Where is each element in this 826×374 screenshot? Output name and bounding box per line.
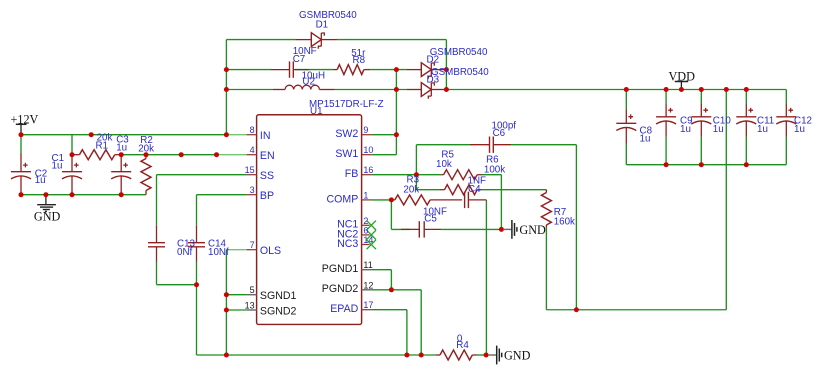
svg-text:SGND1: SGND1 [260,290,297,302]
wire C9 top leg [665,90,667,104]
wire C1 riser [71,135,73,155]
diode D3 symbol [421,83,434,99]
capacitor C1 1u [62,155,82,195]
pin 15 stub [247,174,257,176]
wire SW1 [372,154,397,156]
ground symbol GND left [37,195,56,212]
capacitor C5 10NF [401,221,441,237]
svg-text:4: 4 [250,145,255,155]
svg-text:IN: IN [260,130,271,142]
capacitor C8 1u [616,110,636,143]
svg-text:U1: U1 [310,106,323,117]
svg-text:1u: 1u [680,124,691,135]
wire FB riser [415,145,417,190]
pin 2 NC stub [362,224,370,226]
capacitor C7 10NF [271,61,309,77]
node rail EPAD junction [404,353,409,358]
pin 5 stub [247,294,257,296]
svg-text:160k: 160k [554,216,575,227]
wire PGND2 [372,289,422,291]
svg-text:D1: D1 [316,19,329,30]
wire C13 vertical upper [156,175,158,226]
wire R5 GND vertical [500,175,502,230]
power VDD symbol [675,82,689,90]
wire feedback bottom line [546,309,726,311]
diode D2 GSMBR0540 [407,69,421,71]
node C13/C14 junction [194,282,199,287]
wire C7 to R8 [295,69,333,71]
pin 1 stub [362,199,372,201]
capacitor C4 1NF [465,192,487,208]
wire R7 lower vertical [545,227,547,310]
svg-text:D3: D3 [427,75,440,86]
svg-text:1u: 1u [116,143,127,154]
wire lower left GND rail [21,194,146,196]
resistor R1 20k [72,150,121,160]
svg-text:1: 1 [363,190,368,200]
wire SW2 [372,134,397,136]
node IN rail junction [89,132,94,137]
wire C14 vertical lower [196,262,198,356]
node bank C10 junction [699,162,704,167]
svg-text:14: 14 [363,235,373,245]
wire C7 line left [226,69,271,71]
wire SW vertical [395,70,397,155]
wire BP line [197,194,247,196]
svg-text:100k: 100k [484,164,505,175]
pin 10 stub [362,154,372,156]
capacitor C12 1u [776,104,796,137]
no-connect X pin 6 [367,230,376,239]
node EN junction [179,152,184,157]
wire C6 drop vertical [575,145,577,310]
node VDD tap junction [724,87,729,92]
svg-text:16: 16 [363,165,373,175]
svg-text:R8: R8 [353,55,366,66]
wire C9 bottom leg [665,137,667,165]
wire C11 top leg [745,90,747,104]
wire D1 drop [445,40,447,90]
svg-text:R4: R4 [456,340,469,351]
node IN rail left vertical junction [224,132,229,137]
svg-text:11: 11 [363,260,372,270]
wire COMP drop [390,200,392,230]
svg-text:10k: 10k [436,159,452,170]
resistor R6 100k [440,185,482,195]
svg-text:COMP: COMP [327,193,359,205]
wire D1 line left [226,39,296,41]
resistor R2 20k [141,155,151,195]
pin 8 stub [247,134,257,136]
svg-text:1u: 1u [713,124,724,135]
node rail SGND junction [224,353,229,358]
wire D1 line right [337,39,446,41]
svg-text:GND: GND [504,349,531,363]
wire SGND vertical [225,250,227,355]
wire C14 vertical upper [196,195,198,226]
svg-text:15: 15 [245,165,255,175]
wire SGND2 [226,309,246,311]
svg-text:1u: 1u [757,124,768,135]
wire C11 bottom leg [745,137,747,165]
node EN/C1 junction [70,152,75,157]
svg-text:13: 13 [245,301,255,311]
resistor R7 160k [541,190,551,227]
diode D1 symbol [311,33,324,49]
wire R4 to GND [477,354,487,356]
node bank C9 junction [664,162,669,167]
svg-text:GND: GND [519,223,546,237]
pin 3 stub [247,194,257,196]
svg-text:D2: D2 [427,55,440,66]
wire C12 bottom leg [785,137,787,165]
svg-text:1u: 1u [794,124,805,135]
svg-text:BP: BP [260,190,274,202]
svg-text:C7: C7 [293,54,306,65]
wire C6 line left [416,144,470,146]
pin 4 stub [247,154,257,156]
pin 6 NC stub [362,234,370,236]
pin 9 stub [362,134,372,136]
no-connect X pin 2 [367,221,376,230]
node rail PGND2 junction [419,353,424,358]
wire C13 C14 link [157,284,197,286]
svg-text:2: 2 [363,216,368,226]
node rail GND junction [484,353,489,358]
wire cap bank bottom rail [626,164,786,166]
wire EN pin pale segment [217,154,247,156]
svg-text:OLS: OLS [260,245,281,257]
svg-text:PGND2: PGND2 [322,283,359,295]
wire FB line [372,174,442,176]
svg-text:9: 9 [363,125,368,135]
wire R6 line right [482,189,547,191]
capacitor C6 100pf [470,137,511,153]
node GND rail GND junction [43,192,48,197]
wire output VDD rail [446,89,786,91]
pin 17 stub [362,309,372,311]
wire OLS pale segment [226,249,246,251]
node bank C11 junction [744,162,749,167]
svg-text:GSMBR0540: GSMBR0540 [431,67,489,78]
wire PGND2 drop [420,290,422,355]
wire U2 line left [226,89,273,91]
node D3 out junction [444,87,449,92]
pin 7 stub [247,249,257,251]
wire R6 line left [416,189,440,191]
wire SS line [157,174,247,176]
node +12V junction [19,132,24,137]
node PGND junction [389,287,394,292]
wire PGND1 [372,269,392,271]
wire U2 to D3 [335,89,407,91]
node GND mid junction [499,227,504,232]
wire EPAD [372,309,407,311]
svg-text:FB: FB [345,168,359,180]
node feedback junction [574,307,579,312]
svg-text:NC3: NC3 [337,238,358,250]
node EN/R2 junction [144,152,149,157]
node SGND1 junction [224,292,229,297]
svg-text:C4: C4 [468,184,481,195]
node D2 out junction [444,67,449,72]
wire C8 bottom leg [625,143,627,165]
wire +12V rail to IN pin [21,134,226,136]
pin 13 stub [247,309,257,311]
svg-text:EN: EN [260,150,275,162]
svg-text:3: 3 [250,185,255,195]
node FB junction [414,172,419,177]
node SGND2 junction [224,308,229,313]
svg-text:6: 6 [363,225,368,235]
svg-text:PGND1: PGND1 [322,263,359,275]
svg-text:17: 17 [363,300,373,310]
wire EPAD drop [406,310,408,355]
wire C6 line right [511,144,576,146]
capacitor C10 1u [691,104,711,137]
svg-text:8: 8 [250,125,255,135]
node VDD C8 junction [624,87,629,92]
wire SGND1 [226,294,246,296]
wire C10 top leg [700,90,702,104]
wire PGND1 drop [390,270,392,290]
diode D1 GSMBR0540 [296,39,311,41]
svg-text:SW2: SW2 [335,128,358,140]
svg-text:20k: 20k [403,185,419,196]
wire left vertical [225,40,227,135]
capacitor C2 1u [11,153,31,195]
wire C5 line right [441,228,501,230]
node VDD sym junction [679,87,684,92]
wire R5 to GND vertical [482,174,502,176]
svg-text:20k: 20k [138,143,154,154]
no-connect X pin 14 [367,240,376,249]
svg-text:R1: R1 [96,140,109,151]
capacitor C3 1u [111,155,131,195]
pin 12 stub [362,289,372,291]
svg-text:+12V: +12V [11,113,39,127]
svg-text:SW1: SW1 [335,148,358,160]
svg-text:0Nf: 0Nf [177,247,193,258]
node U2 line junction [224,87,229,92]
wire bottom GND rail [197,354,437,356]
node VDD C11 junction [744,87,749,92]
pin 16 stub [362,174,372,176]
node GND rail C1 junction [70,192,75,197]
wire EN line [121,154,216,156]
node SW/D3 junction [394,87,399,92]
svg-text:7: 7 [250,240,255,250]
resistor R5 10k [441,170,481,180]
capacitor C13 0Nf [148,226,165,262]
node COMP junction [389,197,394,202]
resistor R4 0 [436,350,477,360]
wire R8 to D2 [370,69,407,71]
resistor R3 20k [391,195,462,205]
svg-text:C6: C6 [493,128,506,139]
ground symbol GND bottom [489,346,502,365]
wire C5 line left [391,228,410,230]
node EN/C3 junction [119,152,124,157]
ground symbol GND middle [504,220,517,239]
svg-text:GND: GND [34,210,61,224]
wire C10 bottom leg [700,137,702,165]
wire C12 top leg [785,90,787,104]
node C7 line junction [224,67,229,72]
svg-text:SS: SS [260,170,274,182]
svg-text:10Nf: 10Nf [208,247,229,258]
svg-text:EPAD: EPAD [330,303,358,315]
svg-text:C5: C5 [424,213,437,224]
svg-text:5: 5 [250,285,255,295]
pin 14 NC stub [362,244,370,246]
capacitor C9 1u [656,104,676,137]
capacitor C11 1u [736,104,756,137]
pin 11 stub [362,269,372,271]
svg-text:U2: U2 [302,77,315,88]
inductor U2 10uH [273,85,335,89]
diode D2 symbol [421,63,434,79]
wire C4 drop vertical [485,200,487,355]
IC U1 MP1517DR-LF-Z body [257,115,362,325]
svg-text:VDD: VDD [669,70,696,84]
wire C8 top leg [625,90,627,111]
node GND rail C3 junction [119,192,124,197]
svg-text:1u: 1u [35,175,46,186]
svg-text:12: 12 [363,280,373,290]
node GND rail C2 junction [19,192,24,197]
svg-text:1u: 1u [52,160,63,171]
node EN junction [214,152,219,157]
node SW/D2 junction [394,67,399,72]
svg-text:10: 10 [363,145,373,155]
node SW2 junction [394,132,399,137]
wire IN pin pale segment [226,134,246,136]
svg-text:1u: 1u [640,134,651,145]
wire COMP [372,199,392,201]
wire C13 vertical lower [156,262,158,285]
capacitor C14 10Nf [188,226,205,262]
diode D3 GSMBR0540 [407,89,421,91]
wire VDD tap vertical [725,90,727,310]
wire C2 riser [20,135,22,153]
node VDD C9 junction [664,87,669,92]
resistor R8 51r [333,65,370,75]
svg-text:SGND2: SGND2 [260,305,297,317]
power +12V symbol [16,124,27,134]
node VDD C10 junction [699,87,704,92]
